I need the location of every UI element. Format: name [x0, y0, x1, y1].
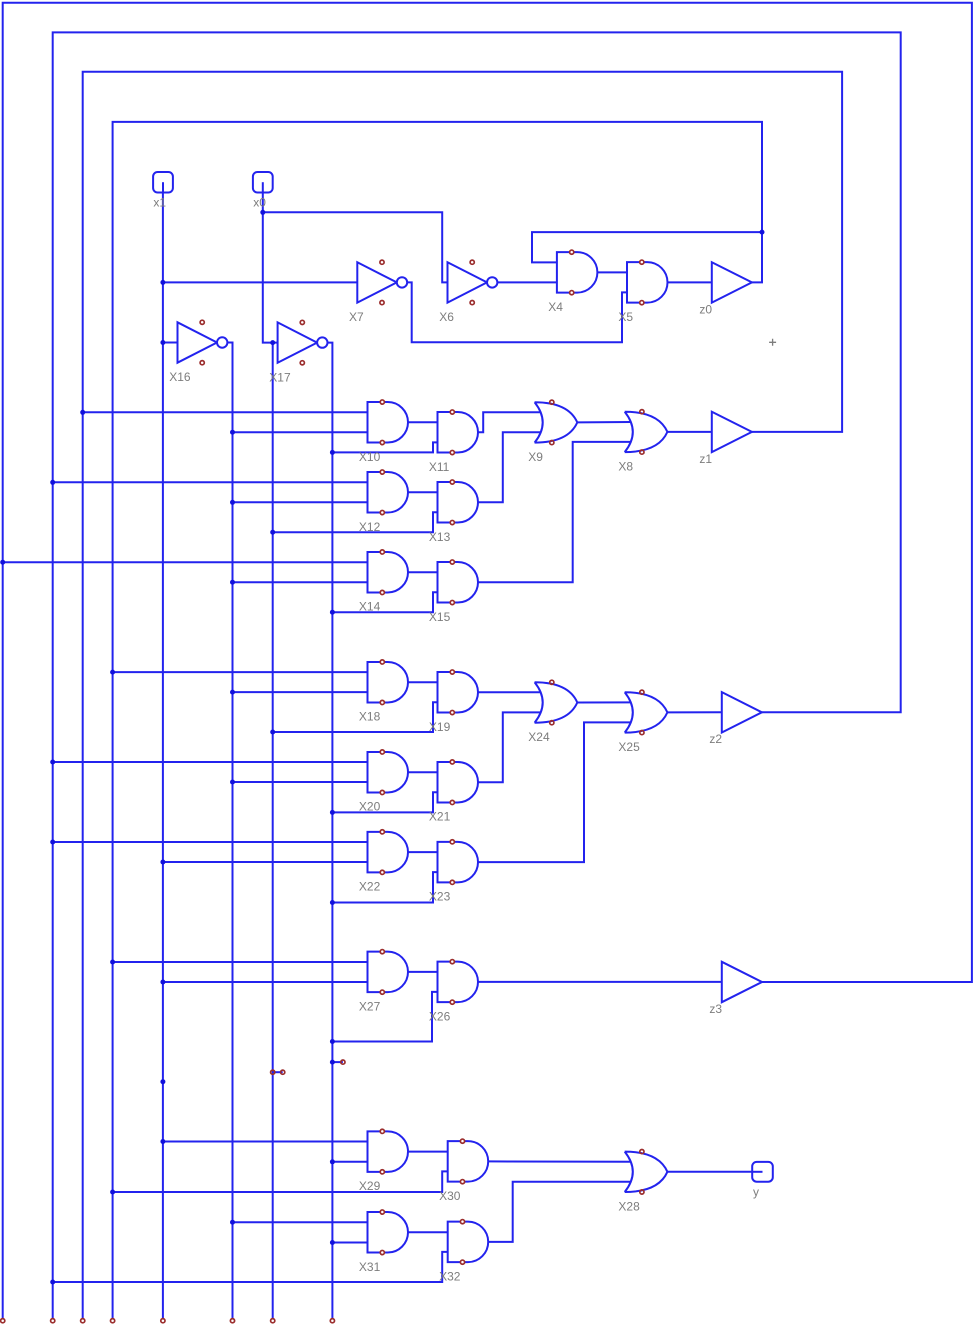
svg-text:X4: X4 — [548, 300, 563, 314]
svg-text:z3: z3 — [709, 1002, 722, 1016]
svg-text:X22: X22 — [359, 880, 381, 894]
svg-text:X16: X16 — [169, 370, 191, 384]
svg-text:X28: X28 — [618, 1199, 640, 1213]
svg-text:X18: X18 — [359, 710, 381, 724]
svg-text:X7: X7 — [349, 310, 364, 324]
svg-text:y: y — [753, 1185, 759, 1199]
svg-text:X21: X21 — [429, 810, 451, 824]
svg-text:X20: X20 — [359, 800, 381, 814]
svg-text:X11: X11 — [429, 460, 450, 474]
svg-text:z1: z1 — [699, 452, 712, 466]
svg-text:X24: X24 — [528, 730, 550, 744]
svg-text:z0: z0 — [699, 302, 712, 316]
svg-text:X32: X32 — [439, 1269, 461, 1283]
svg-text:X8: X8 — [618, 459, 633, 473]
svg-text:X31: X31 — [359, 1260, 381, 1274]
svg-text:X25: X25 — [618, 740, 640, 754]
svg-text:X9: X9 — [528, 450, 543, 464]
svg-text:X27: X27 — [359, 999, 381, 1013]
svg-text:X12: X12 — [359, 520, 381, 534]
svg-text:X19: X19 — [429, 720, 451, 734]
svg-text:z2: z2 — [709, 732, 722, 746]
svg-text:X23: X23 — [429, 890, 451, 904]
svg-text:x1: x1 — [153, 196, 166, 210]
svg-text:X14: X14 — [359, 600, 381, 614]
svg-text:X29: X29 — [359, 1179, 381, 1193]
svg-text:X13: X13 — [429, 530, 451, 544]
svg-text:X5: X5 — [618, 310, 633, 324]
svg-text:X26: X26 — [429, 1009, 451, 1023]
svg-text:X15: X15 — [429, 610, 451, 624]
svg-text:X10: X10 — [359, 450, 381, 464]
svg-text:x0: x0 — [253, 196, 266, 210]
svg-text:X30: X30 — [439, 1189, 461, 1203]
svg-text:X6: X6 — [439, 310, 454, 324]
svg-text:X17: X17 — [269, 370, 291, 384]
